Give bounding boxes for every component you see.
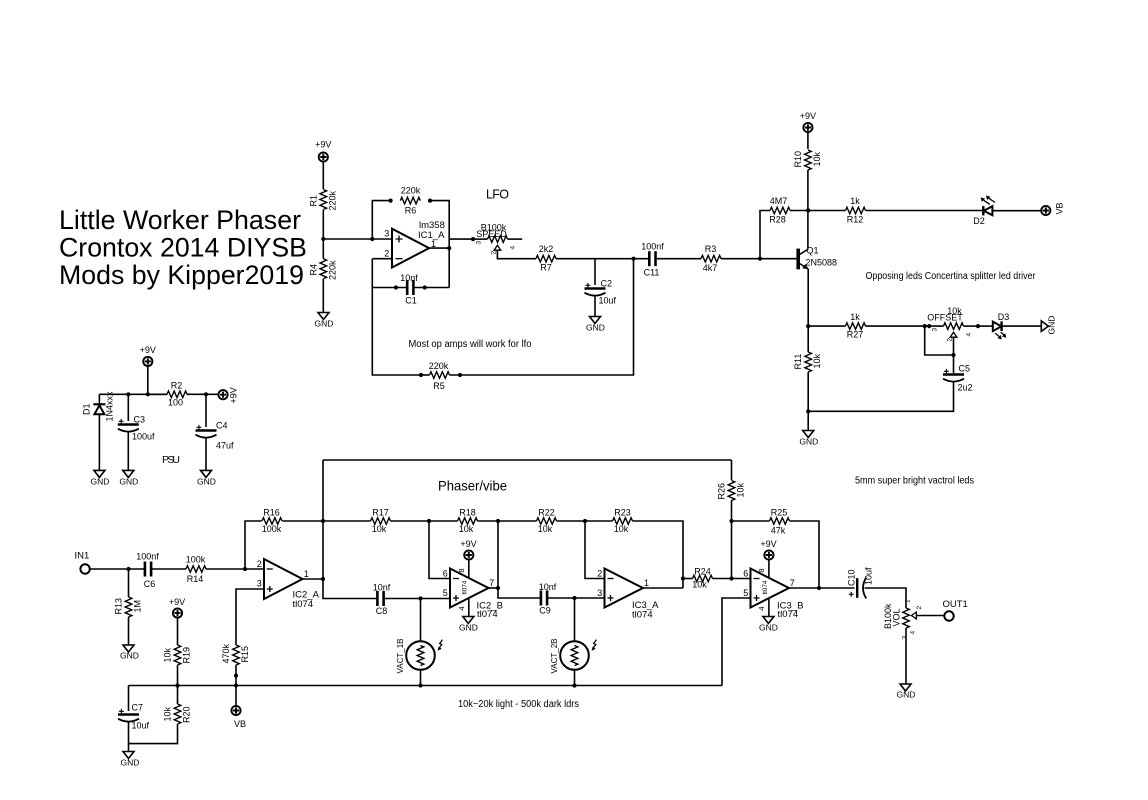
svg-text:2u2: 2u2 [958, 383, 973, 393]
svg-text:GND: GND [120, 651, 139, 661]
svg-text:8: 8 [457, 568, 466, 572]
svg-text:GND: GND [459, 623, 478, 633]
wire D3 to GND right [1002, 325, 1042, 327]
wire emitter to R27 [808, 325, 845, 327]
svg-text:R3: R3 [705, 244, 717, 254]
ground sideways right of D3 [1041, 316, 1056, 335]
node -in / R16 [243, 567, 247, 571]
svg-text:4M7: 4M7 [770, 196, 788, 206]
svg-text:VB: VB [1055, 202, 1065, 214]
svg-text:R28: R28 [769, 215, 786, 225]
ground below C7 [121, 752, 140, 768]
svg-text:47k: 47k [771, 526, 786, 536]
svg-text:R14: R14 [187, 574, 204, 584]
resistor R27 1k [846, 312, 866, 340]
potentiometer SPEED B100k [471, 223, 522, 255]
svg-text:10k: 10k [812, 151, 822, 166]
node R2 / C4 [204, 392, 208, 396]
node input / R13 [126, 567, 130, 571]
resistor R1 220k [309, 190, 338, 211]
node R11 / C5 return [806, 409, 810, 413]
svg-text:+9V: +9V [229, 387, 239, 403]
resistor R6 220k feedback [389, 186, 433, 216]
node +in / R6 feedback [370, 237, 374, 241]
svg-text:10k: 10k [812, 353, 822, 368]
capacitor C4 47uf [196, 421, 235, 451]
resistor R16 100k feedback [262, 508, 282, 535]
svg-text:4k7: 4k7 [703, 263, 718, 273]
wire C4 to GND [205, 437, 207, 470]
svg-text:10k: 10k [163, 647, 173, 662]
svg-text:10nf: 10nf [539, 582, 557, 592]
resistor R25 47k feedback [732, 508, 820, 589]
wire R16 to node [283, 520, 324, 522]
ground below C3 [119, 470, 138, 486]
title text block [59, 205, 307, 290]
resistor R17 10k [323, 508, 429, 535]
svg-text:8: 8 [757, 568, 766, 572]
svg-text:C3: C3 [134, 415, 146, 425]
wire IC3_B +in from VB bus [722, 598, 751, 686]
svg-text:R17: R17 [372, 508, 389, 518]
node pot left branch [923, 324, 927, 328]
svg-text:220k: 220k [328, 190, 338, 210]
svg-text:100k: 100k [262, 524, 282, 534]
resistor R18 10k [429, 508, 498, 535]
resistor R4 220k [309, 259, 338, 280]
svg-text:Little Worker Phaser: Little Worker Phaser [59, 205, 301, 235]
resistor R10 10k [793, 150, 822, 170]
svg-text:10k: 10k [614, 524, 629, 534]
wire R7 to C11 node [556, 258, 649, 260]
svg-text:R16: R16 [263, 508, 280, 518]
resistor R14 100k [186, 555, 206, 585]
svg-text:3: 3 [384, 229, 389, 239]
svg-text:3: 3 [902, 636, 909, 640]
photoresistor VACT_1B [396, 599, 443, 686]
ground IC2_B pin4 [457, 598, 478, 632]
capacitor C5 2u2 [943, 364, 973, 393]
op-amp U2 IC2_A tl074 [257, 559, 320, 610]
capacitor C6 100nf [136, 552, 159, 590]
resistor R2 100 [148, 381, 219, 408]
wire R15 to VB bus [235, 665, 237, 686]
wire R4 to GND [322, 279, 324, 313]
svg-text:C5: C5 [959, 364, 971, 374]
svg-text:10k: 10k [692, 580, 707, 590]
svg-text:4: 4 [757, 606, 766, 610]
svg-text:1k: 1k [850, 312, 860, 322]
terminal OUT1 [943, 599, 968, 621]
wire IC3_A output [643, 587, 683, 589]
svg-text:Crontox 2014 DIYSB: Crontox 2014 DIYSB [59, 233, 307, 263]
op-amp U4 IC3_A tl074 [597, 569, 659, 621]
svg-text:VB: VB [234, 719, 246, 729]
svg-text:1: 1 [304, 569, 309, 579]
capacitor C11 100nf [641, 242, 664, 278]
photoresistor VACT_2B [550, 598, 597, 686]
svg-text:R20: R20 [182, 706, 192, 723]
capacitor C8 10nf [373, 583, 391, 617]
wire C4 branch [205, 394, 207, 427]
wire R6 right to output vertical [430, 201, 449, 288]
wire pot-left loop to wiper [925, 326, 954, 355]
svg-text:2k2: 2k2 [539, 244, 554, 254]
wire output of IC1 [429, 247, 449, 249]
wire C9 to IC3_A +in [547, 597, 604, 599]
node LFO divider mid [321, 237, 325, 241]
potentiometer OFFSET 10k [927, 306, 978, 342]
svg-text:3: 3 [476, 241, 483, 245]
svg-text:C11: C11 [644, 268, 660, 278]
wire R3 to Q1 base [721, 258, 797, 260]
wire -in down to C1 and R5 [372, 259, 421, 375]
svg-text:2: 2 [491, 251, 498, 255]
wire R10 to collector node [807, 170, 809, 249]
svg-text:10k: 10k [459, 524, 474, 534]
wire VOL bottom to GND [905, 628, 907, 684]
svg-text:220k: 220k [401, 186, 421, 196]
wire R28 branch vertical [760, 211, 770, 259]
LED D3 [993, 312, 1009, 339]
resistor R5 220k lfo feedback [419, 259, 634, 391]
wire R11 to GND [807, 372, 809, 431]
power +9V terminal collector [800, 111, 816, 132]
svg-text:R7: R7 [540, 263, 552, 273]
op-amp U3 IC2_B tl074 [443, 569, 503, 621]
svg-text:tl074: tl074 [293, 599, 314, 610]
svg-text:4: 4 [457, 606, 466, 610]
svg-text:100nf: 100nf [641, 242, 664, 252]
node PSU bus / C3 [126, 392, 130, 396]
node R18/R22 junction [496, 519, 500, 523]
svg-text:C1: C1 [405, 296, 417, 306]
wire +9V to R1 [322, 162, 324, 189]
svg-text:R6: R6 [405, 206, 417, 216]
svg-text:Most op amps will work for lfo: Most op amps will work for lfo [409, 339, 532, 350]
wire divider to op-amp +in [323, 238, 392, 240]
svg-text:VACT_2B: VACT_2B [550, 639, 559, 674]
svg-text:220k: 220k [328, 260, 338, 280]
capacitor C7 10uf [118, 686, 150, 731]
wire R16 branch [245, 521, 262, 569]
svg-text:+9V: +9V [140, 345, 156, 355]
resistor R20 10k [129, 686, 192, 744]
wire C7 to GND [128, 721, 130, 752]
svg-text:220k: 220k [429, 361, 449, 371]
svg-text:R26: R26 [717, 483, 727, 500]
svg-text:4: 4 [910, 631, 917, 635]
svg-text:C6: C6 [144, 579, 156, 589]
node R26 / R25 [729, 519, 733, 523]
svg-text:R18: R18 [459, 508, 476, 518]
svg-text:470k: 470k [221, 643, 231, 663]
op-amp U1 IC1_A lm358 [384, 220, 445, 268]
node output stage3 [681, 576, 685, 580]
resistor R13 1M [114, 597, 143, 617]
svg-text:C4: C4 [216, 421, 228, 431]
svg-text:10k: 10k [372, 524, 387, 534]
svg-text:2: 2 [947, 338, 954, 342]
svg-text:10uf: 10uf [864, 567, 874, 585]
op-amp U5 IC3_B tl074 [743, 569, 803, 621]
terminal VB bias [231, 686, 246, 730]
svg-text:D1: D1 [82, 403, 92, 415]
wire IC2_B output [489, 587, 499, 589]
svg-text:tl074: tl074 [477, 609, 498, 620]
node R16/R17 junction [321, 519, 325, 523]
wire C8 to IC2_B +in [384, 598, 450, 600]
svg-text:C10: C10 [847, 569, 857, 586]
svg-text:tl074: tl074 [461, 580, 468, 594]
power +9V terminal IC3_B pin8 [757, 539, 777, 578]
svg-text:R13: R13 [114, 598, 124, 615]
svg-text:R25: R25 [771, 508, 788, 518]
wire D1 to GND [98, 414, 100, 470]
wire R13 branch [128, 569, 130, 597]
capacitor C2 10uf [585, 279, 617, 306]
wire speed pot row [449, 238, 473, 240]
node R22/R23 junction [583, 519, 587, 523]
power +9V terminal PSU input [140, 345, 156, 366]
svg-text:5mm super bright vactrol leds: 5mm super bright vactrol leds [855, 476, 974, 487]
terminal VB right [1041, 202, 1064, 215]
power +9V terminal LFO divider [315, 140, 331, 162]
svg-text:R10: R10 [793, 151, 803, 168]
node wiper / C5 [951, 353, 955, 357]
ground below C2 [586, 317, 605, 333]
svg-text:D3: D3 [998, 312, 1010, 322]
resistor R7 2k2 [536, 244, 556, 273]
ground below D1 [91, 470, 110, 486]
wire PSU bus [99, 393, 167, 395]
node PSU bus / +9V drop [146, 392, 150, 396]
svg-text:3: 3 [932, 328, 939, 332]
wire D2 to VB terminal [992, 210, 1041, 212]
svg-text:1: 1 [905, 599, 912, 603]
svg-text:D2: D2 [973, 216, 985, 226]
wire R12 to D2 [866, 210, 984, 212]
wire wiper to R7 [497, 250, 536, 259]
svg-text:GND: GND [1047, 316, 1057, 335]
svg-text:6: 6 [443, 569, 448, 579]
svg-text:LFO: LFO [486, 188, 509, 202]
svg-text:Q1: Q1 [807, 246, 819, 256]
wire C11 to R3 [656, 258, 702, 260]
node output stage2 [496, 586, 500, 590]
svg-text:10k: 10k [538, 524, 553, 534]
diode D1 1N4xxx [82, 391, 115, 422]
potentiometer VOL B100k [883, 599, 923, 640]
svg-text:OUT1: OUT1 [943, 599, 968, 610]
wire R13 to GND [128, 617, 130, 645]
wire R12 row [808, 210, 845, 212]
svg-text:R12: R12 [847, 215, 864, 225]
svg-text:R15: R15 [240, 646, 250, 663]
ground below R4 [315, 313, 334, 329]
svg-text:10uf: 10uf [132, 721, 150, 731]
svg-text:3: 3 [597, 588, 602, 598]
svg-text:+9V: +9V [760, 539, 776, 549]
svg-text:1: 1 [644, 578, 649, 588]
wire C10 to VOL pot [865, 588, 907, 608]
svg-text:tl074: tl074 [632, 610, 653, 621]
svg-text:10nf: 10nf [373, 583, 391, 593]
wire IC2_A +in to R15 [236, 589, 264, 645]
wire emitter down [807, 269, 809, 352]
resistor R23 10k [585, 508, 683, 589]
wire wiper down [953, 337, 955, 373]
svg-text:GND: GND [121, 758, 140, 768]
wire C3 to GND [127, 431, 129, 470]
svg-text:R27: R27 [847, 330, 864, 340]
svg-text:OFFSET: OFFSET [927, 313, 963, 323]
svg-text:5: 5 [743, 588, 748, 598]
wire stage2 vertical [498, 521, 541, 598]
svg-text:10nf: 10nf [400, 273, 418, 283]
wire R14 to IC2_A -in [206, 568, 264, 570]
svg-text:2N5088: 2N5088 [806, 258, 838, 268]
svg-text:C7: C7 [132, 703, 144, 713]
svg-text:GND: GND [197, 477, 216, 487]
transistor Q1 2N5088 [798, 246, 837, 270]
svg-text:GND: GND [586, 323, 605, 333]
wire C2 to GND [594, 295, 596, 317]
svg-text:Mods by Kipper2019: Mods by Kipper2019 [59, 260, 304, 290]
node vactrol 1 bus [418, 683, 422, 687]
svg-text:+9V: +9V [460, 539, 476, 549]
wire stage1 vertical [323, 460, 377, 599]
svg-text:R5: R5 [433, 381, 445, 391]
wire R6 left vertical [372, 201, 390, 239]
svg-text:GND: GND [759, 623, 778, 633]
svg-text:1M: 1M [133, 600, 143, 613]
svg-text:IN1: IN1 [75, 551, 90, 562]
capacitor C10 10uf output [847, 567, 874, 599]
capacitor C3 100uf [118, 415, 155, 442]
resistor R11 10k [793, 352, 822, 372]
LED D2 [973, 196, 995, 227]
svg-text:6: 6 [743, 569, 748, 579]
resistor R22 10k [498, 508, 585, 535]
resistor R12 1k [846, 196, 866, 225]
svg-text:+9V: +9V [800, 111, 816, 121]
ground below R11 [799, 431, 818, 447]
wire IC2_A output [303, 578, 324, 580]
capacitor C9 10nf [539, 582, 557, 616]
resistor R3 4k7 [701, 244, 721, 273]
wire IC3_A -in [585, 521, 605, 579]
resistor R26 10k feedback [717, 460, 746, 579]
svg-text:10uf: 10uf [599, 296, 617, 306]
svg-text:2: 2 [916, 606, 923, 610]
svg-text:GND: GND [119, 477, 138, 487]
svg-text:100: 100 [168, 398, 183, 408]
node output stage1 [321, 577, 325, 581]
node vactrol 1 top [418, 596, 422, 600]
ground IC3_B pin4 [757, 598, 778, 632]
svg-text:100nf: 100nf [136, 552, 159, 562]
node output / R25 return [817, 586, 821, 590]
top feedback bus [323, 459, 732, 461]
svg-text:7: 7 [790, 578, 795, 588]
node vactrol 2 top [572, 596, 576, 600]
node collector / R28 / R12 [806, 208, 810, 212]
svg-text:100uf: 100uf [132, 432, 155, 442]
svg-text:Opposing leds Concertina split: Opposing leds Concertina splitter led dr… [866, 271, 1037, 282]
ground below R13 [120, 645, 139, 661]
wire C6 to R14 [151, 568, 186, 570]
wire C2 branch [594, 259, 596, 285]
svg-text:VACT_1B: VACT_1B [396, 639, 405, 674]
power +9V output terminal [218, 387, 238, 403]
wire D1 branch [98, 394, 100, 403]
svg-text:R22: R22 [538, 508, 555, 518]
resistor R19 10k [163, 618, 192, 686]
svg-text:10k: 10k [163, 706, 173, 721]
terminal IN1 [75, 551, 90, 574]
resistor R28 4M7 [769, 196, 808, 225]
wire IC3_B output [789, 587, 855, 589]
node R19/R20 divider [175, 683, 179, 687]
svg-text:5: 5 [443, 588, 448, 598]
svg-text:2: 2 [597, 569, 602, 579]
svg-text:tl074: tl074 [762, 580, 769, 594]
wire +9V to R10 [807, 132, 809, 149]
svg-text:GND: GND [315, 319, 334, 329]
wire R27 to OFFSET pot [866, 325, 944, 327]
svg-text:2: 2 [384, 249, 389, 259]
svg-text:R4: R4 [309, 264, 319, 276]
svg-text:GND: GND [799, 437, 818, 447]
svg-text:C2: C2 [601, 279, 613, 289]
wire IN1 to C6 [90, 568, 145, 570]
power +9V terminal IC2_B pin8 [457, 539, 477, 578]
node R5 feedback / C11 [631, 257, 635, 261]
svg-text:R23: R23 [614, 508, 631, 518]
ground below C4 [197, 470, 216, 486]
svg-text:GND: GND [897, 690, 916, 700]
node vactrol 2 bus [572, 683, 576, 687]
svg-text:R11: R11 [793, 354, 803, 370]
node R24 / IC3_B -in [729, 576, 733, 580]
svg-text:4: 4 [966, 333, 973, 337]
svg-text:1N4xxx: 1N4xxx [105, 391, 115, 422]
node output / feedback vertical [447, 246, 451, 250]
ground below VOL [897, 684, 916, 700]
svg-text:SPEED: SPEED [476, 229, 507, 239]
svg-text:Phaser/vibe: Phaser/vibe [438, 478, 507, 494]
node R17/R18 junction [427, 519, 431, 523]
svg-text:tl074: tl074 [778, 609, 799, 620]
wire pot to D3 [978, 325, 993, 327]
node R15 lead [234, 674, 238, 678]
svg-text:+9V: +9V [315, 140, 331, 150]
svg-text:4: 4 [510, 246, 517, 250]
svg-text:R2: R2 [171, 381, 183, 391]
svg-text:PSU: PSU [162, 454, 180, 466]
wire IC2_B -in [429, 521, 450, 579]
wire C3 branch [127, 394, 129, 421]
svg-text:C9: C9 [539, 606, 551, 616]
svg-text:R24: R24 [694, 567, 711, 577]
node base / R28 branch [758, 257, 762, 261]
node pot right / D3 [976, 324, 980, 328]
svg-text:7: 7 [489, 578, 494, 588]
svg-text:R19: R19 [182, 647, 192, 664]
resistor R24 10k [683, 567, 751, 590]
svg-text:1k: 1k [850, 196, 860, 206]
